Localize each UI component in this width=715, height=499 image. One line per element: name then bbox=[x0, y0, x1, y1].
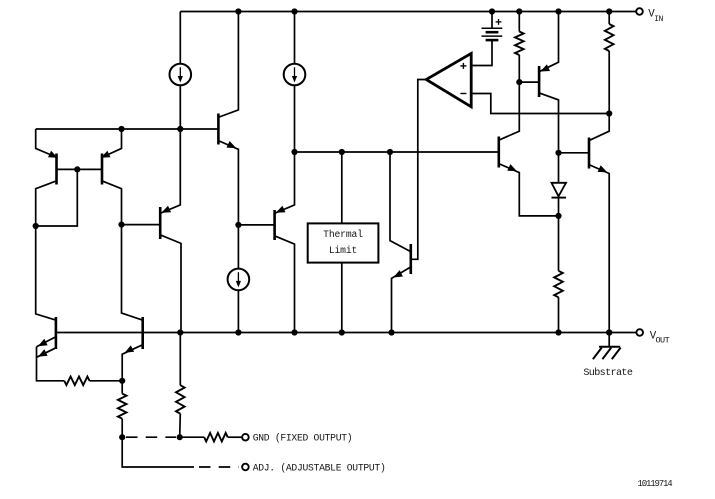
node base tie bbox=[74, 166, 80, 172]
wire R1 to Q10 base node bbox=[518, 55, 520, 82]
wire diode anode bbox=[558, 153, 560, 183]
wire R7 to GND terminal bbox=[228, 436, 242, 438]
node Q7 emitter on VOUT rail bbox=[388, 329, 394, 335]
node Q4 collector on VOUT rail bbox=[177, 329, 183, 335]
resistor R2 bbox=[605, 24, 614, 51]
svg-text:Limit: Limit bbox=[329, 245, 357, 256]
wire VOUT rail down to R6 bbox=[179, 333, 181, 386]
Q6 emitter arrow (PNP) bbox=[276, 206, 286, 213]
resistor R4 bbox=[64, 377, 89, 386]
node diode cathode / Q11 emitter / R3 bbox=[555, 213, 561, 219]
svg-text:IN: IN bbox=[654, 15, 663, 24]
wire Q5 emitter bbox=[219, 141, 238, 225]
wire thermal limit to VOUT rail bbox=[341, 263, 343, 333]
svg-text:OUT: OUT bbox=[656, 336, 670, 346]
wire Q1-Q2 base tie bbox=[57, 168, 103, 170]
Q2 emitter arrow (PNP) bbox=[101, 151, 111, 158]
wire I3 to VOUT rail bbox=[237, 290, 239, 332]
svg-text:10119714: 10119714 bbox=[638, 479, 673, 489]
node Q5 emitter / Q6 base bbox=[235, 222, 241, 228]
wire Q6 base bbox=[238, 224, 274, 226]
wire node to R5 bbox=[121, 381, 123, 394]
node R2 on top rail bbox=[606, 8, 612, 14]
node Q5 collector on top rail bbox=[235, 8, 241, 14]
node Q6 collector on VOUT rail bbox=[291, 329, 297, 335]
label VIN bbox=[648, 9, 663, 24]
battery reference V1 bbox=[482, 19, 503, 40]
terminal ADJ bbox=[242, 464, 249, 471]
wire Q11 emitter to diode node bbox=[500, 164, 559, 216]
wire rail B down to Q7 collector bbox=[390, 152, 410, 251]
wire Q2 emitter bbox=[101, 129, 121, 158]
wire Q2 collector bbox=[101, 181, 121, 225]
terminal GND bbox=[242, 434, 249, 441]
wire base tie down bbox=[36, 169, 78, 226]
wire Q12 collector bbox=[590, 114, 609, 141]
wire Q8 emitters down to R4 bbox=[37, 347, 65, 381]
wire Q12 emitter to VOUT rail bbox=[590, 165, 609, 333]
transistor Q12 (NPN) bbox=[588, 138, 591, 169]
terminal VOUT bbox=[636, 329, 643, 336]
resistor R5 bbox=[118, 394, 127, 419]
node Q10 base / R1 / Q11 collector bbox=[516, 79, 522, 85]
wire R4 to Q9 emitter node bbox=[90, 380, 123, 382]
wire Q1 collector bbox=[36, 181, 58, 226]
wire Q5 emitter down through I3 bbox=[237, 225, 239, 269]
wire Q10 collector down to Q12 base node bbox=[540, 93, 559, 153]
figure number bbox=[638, 479, 673, 489]
wire node down to Q9 collector bbox=[122, 225, 142, 320]
wire Q1 node down to Q8 collector bbox=[36, 226, 55, 320]
wire I1 to rail A and Q4 emitter bbox=[161, 85, 180, 213]
current source I1 bbox=[170, 64, 192, 86]
wire top rail down to battery bbox=[491, 12, 493, 29]
node Q1 collector-base tie bbox=[33, 223, 39, 229]
wire Q9 emitter down bbox=[122, 345, 142, 381]
resistor R7 bbox=[204, 433, 228, 442]
wire Q12 base bbox=[559, 152, 590, 154]
wire top rail down to R1 bbox=[518, 12, 520, 32]
node feedback / Q12 collector bbox=[606, 110, 612, 116]
substrate ground symbol bbox=[593, 347, 621, 360]
transistor Q11 (NPN) bbox=[497, 137, 500, 168]
label VOUT bbox=[650, 330, 670, 345]
current source I3 bbox=[228, 269, 250, 291]
wire top supply rail bbox=[180, 11, 636, 13]
label Substrate bbox=[583, 367, 632, 379]
diode D1 bbox=[552, 183, 567, 198]
wire Q4 base bbox=[122, 224, 161, 226]
node feedback on VOUT vertical bbox=[606, 329, 612, 335]
resistor R6 bbox=[176, 385, 185, 414]
Q8 lower emitter arrow bbox=[38, 349, 48, 356]
current source I2 bbox=[284, 64, 306, 86]
wire R2 to feedback node bbox=[608, 51, 610, 114]
node R1 on top rail bbox=[516, 8, 522, 14]
node Q7 collector on rail B bbox=[387, 149, 393, 155]
node R6 / GND line bbox=[177, 434, 183, 440]
wire Q10 base bbox=[519, 81, 539, 83]
svg-text:Substrate: Substrate bbox=[583, 367, 632, 379]
svg-text:GND (FIXED OUTPUT): GND (FIXED OUTPUT) bbox=[253, 433, 353, 444]
wire Q5 collector to top rail bbox=[219, 12, 238, 118]
Q5 emitter arrow (NPN) bbox=[227, 141, 237, 148]
node I2 on top rail bbox=[291, 8, 297, 14]
node Q9 emitter / R4 / R5 bbox=[119, 378, 125, 384]
wire rail B down to thermal limit bbox=[341, 152, 343, 223]
Q1 emitter arrow (PNP) bbox=[48, 151, 58, 158]
svg-text:Thermal: Thermal bbox=[323, 229, 363, 240]
node Q12 base / diode anode bbox=[555, 150, 561, 156]
Q4 emitter arrow (PNP) bbox=[161, 206, 171, 213]
op-amp error amplifier U2 bbox=[426, 53, 471, 106]
Q8 lower emitter bbox=[37, 348, 55, 357]
node Q2 collector bbox=[118, 222, 124, 228]
wire to substrate ground bbox=[608, 333, 610, 347]
transistor Q6 (PNP) bbox=[273, 210, 276, 240]
wire mid rail (node B) bbox=[295, 151, 499, 153]
terminal VIN bbox=[636, 8, 643, 15]
wire op-amp output to Q7 base bbox=[411, 80, 426, 260]
wire dashed GND link bbox=[126, 436, 176, 438]
wire battery to op-amp non-inverting input bbox=[471, 40, 492, 65]
wire dashed ADJ link bbox=[199, 466, 239, 468]
transistor Q1 (PNP) bbox=[55, 154, 58, 185]
svg-text:ADJ. (ADJUSTABLE OUTPUT): ADJ. (ADJUSTABLE OUTPUT) bbox=[253, 463, 386, 474]
Q9 emitter arrow (NPN) bbox=[125, 345, 135, 352]
wire ADJ branch bbox=[122, 437, 194, 467]
wire Q11 collector up to Q10 base node bbox=[500, 82, 520, 140]
label GND (FIXED OUTPUT) bbox=[253, 433, 353, 444]
node Q10 emitter on top rail bbox=[555, 8, 561, 14]
wire left rail (node A) bbox=[36, 128, 219, 130]
node thermal limit on VOUT rail bbox=[339, 329, 345, 335]
wire VIN rail down through I1 bbox=[179, 12, 181, 64]
transistor Q9 (NPN) bbox=[141, 317, 144, 349]
transistor Q7 (NPN) bbox=[409, 244, 412, 274]
transistor Q4 (PNP) bbox=[159, 207, 162, 239]
wire GND node to R7 bbox=[180, 436, 205, 438]
wire top rail down to R2 bbox=[608, 12, 610, 25]
Q12 emitter arrow (NPN) bbox=[598, 165, 608, 172]
transistor Q10 (PNP) bbox=[538, 66, 541, 97]
wire Q6 collector down to VOUT rail bbox=[275, 236, 294, 332]
thermal limit block U1 bbox=[308, 223, 379, 262]
wire R5 to GND node bbox=[121, 419, 123, 438]
wire R6 to GND node bbox=[179, 414, 182, 438]
node I3 on VOUT rail bbox=[235, 329, 241, 335]
node R3 on VOUT rail bbox=[555, 329, 561, 335]
Q7 emitter arrow (NPN) bbox=[393, 270, 403, 277]
wire Q4 collector down to VOUT rail bbox=[161, 235, 181, 332]
wire R3 to VOUT rail bbox=[558, 297, 560, 332]
transistor Q2 (PNP) bbox=[101, 154, 104, 185]
transistor Q5 (NPN) bbox=[217, 114, 220, 145]
wire Q7 emitter to VOUT rail bbox=[392, 267, 411, 332]
Q11 emitter arrow (NPN) bbox=[507, 164, 517, 171]
wire VOUT rail bbox=[56, 332, 636, 334]
node I2 on rail B bbox=[291, 149, 297, 155]
wire node to R3 bbox=[558, 216, 560, 271]
node thermal limit on rail B bbox=[339, 149, 345, 155]
wire I2 to rail B and Q6 emitter bbox=[275, 85, 294, 213]
wire diode cathode bbox=[558, 198, 560, 216]
Q8 upper emitter arrow bbox=[38, 339, 48, 346]
resistor R3 bbox=[554, 271, 563, 298]
wire Q10 emitter from top rail bbox=[540, 12, 559, 72]
resistor R1 bbox=[515, 32, 524, 56]
Q10 emitter arrow (PNP) bbox=[540, 64, 550, 71]
wire Q1 emitter bbox=[36, 129, 58, 158]
label ADJ. (ADJUSTABLE OUTPUT) bbox=[253, 463, 386, 474]
wire VIN rail down through I2 bbox=[294, 12, 296, 64]
wire feedback line from error amp inverting input bbox=[471, 94, 609, 114]
node R5 / ADJ branch bbox=[119, 434, 125, 440]
node Q2 emitter on rail bbox=[118, 126, 124, 132]
Q8 upper emitter bbox=[37, 337, 55, 347]
transistor Q8 (dual-emitter NPN) bbox=[55, 317, 58, 349]
node battery on top rail bbox=[489, 8, 495, 14]
node I1 on rail A bbox=[177, 126, 183, 132]
node VOUT rail / substrate bbox=[606, 329, 612, 335]
